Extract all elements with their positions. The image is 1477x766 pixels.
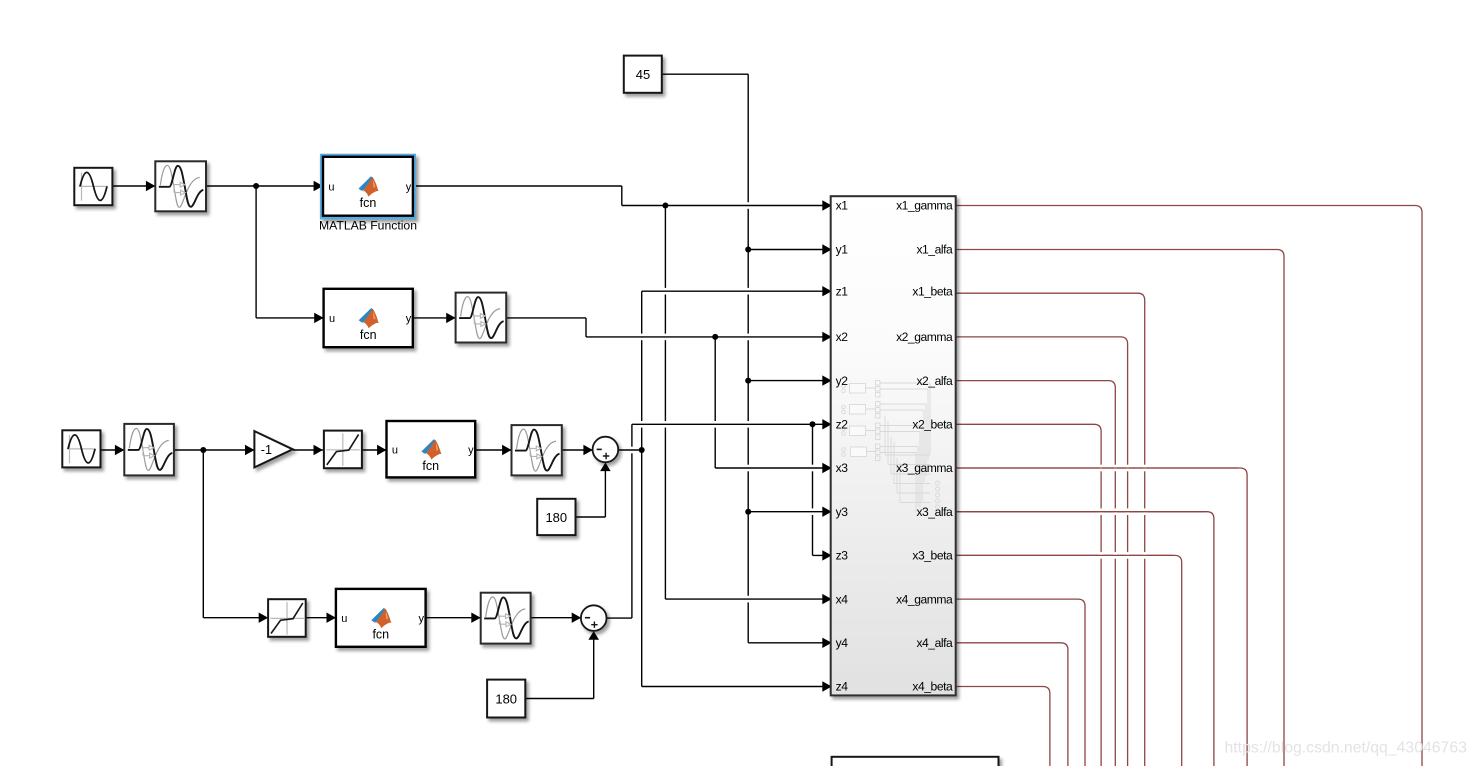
wire sum1 out [618, 449, 641, 451]
WIRES-HORIZONTAL [101, 74, 832, 698]
sum block S2 [581, 605, 607, 631]
wire gain to sat1 [293, 449, 323, 451]
wire x4_gamma output [956, 599, 1085, 766]
wire z3 row [813, 554, 832, 556]
transport delay block (after fcn2) [456, 293, 507, 343]
svg-text:x3_alfa: x3_alfa [916, 505, 953, 519]
wire y2 row [748, 380, 831, 382]
svg-text:z4: z4 [836, 680, 849, 694]
wire z2 row [632, 423, 831, 425]
svg-text:x4: x4 [836, 592, 849, 606]
wire TD3 to gain [174, 449, 255, 451]
svg-text:u: u [341, 613, 347, 625]
wire x4_beta output [956, 687, 1050, 766]
svg-text:x4_alfa: x4_alfa [916, 636, 953, 650]
wire 45 out [662, 73, 748, 75]
svg-text:x3_gamma: x3_gamma [896, 461, 953, 475]
wire x3_gamma horizontal [956, 467, 1238, 469]
subsystem port labels [836, 199, 953, 694]
wire step-down from fcn1 output to x1 row [621, 186, 623, 206]
svg-text:x1_beta: x1_beta [912, 284, 953, 298]
svg-text:x3_beta: x3_beta [912, 549, 953, 563]
svg-text:x3: x3 [836, 461, 849, 475]
wire x3 row [715, 467, 831, 469]
wire to fcn2 [256, 317, 324, 319]
wire x4_alfa output [956, 643, 1068, 766]
wire TD2 out [506, 317, 586, 319]
wire x2 row [586, 336, 831, 338]
transport delay block (after fcn4) [481, 593, 531, 644]
wire fcn3 to TD4 [475, 449, 511, 451]
wire to sat2 [203, 617, 268, 619]
wire TD1 to fcn1 [206, 185, 323, 187]
transport delay block (top chain) [155, 161, 206, 211]
svg-text:fcn: fcn [360, 328, 377, 342]
constant block 45 [624, 56, 662, 93]
wire z4 row [642, 686, 831, 688]
svg-text:x4_beta: x4_beta [912, 680, 953, 694]
wire sum2 out [607, 617, 632, 619]
wire 180b up into sum2 [593, 634, 595, 699]
wire sum1 junction vertical z1..z4 [641, 291, 643, 686]
svg-text:y4: y4 [836, 636, 849, 650]
svg-text:fcn: fcn [360, 196, 377, 210]
wire step-down TD after fcn2 to x2 row [585, 318, 587, 337]
RED OUTPUT WIRES [956, 206, 1422, 766]
wire 180b out [525, 698, 593, 700]
RED HORIZONTALS REDRAWN OVER GAPS [956, 468, 1238, 555]
svg-text:y2: y2 [836, 374, 849, 388]
wire x4 row [665, 598, 831, 600]
svg-text:y: y [406, 181, 412, 193]
wire x3_gamma output [956, 468, 1247, 766]
wire fcn4 to TD5 [426, 617, 481, 619]
wire x1 junction down to x4 row [664, 206, 666, 600]
svg-text:x4_gamma: x4_gamma [896, 592, 953, 606]
svg-text:y: y [406, 313, 412, 325]
wire z2 junction down to z3 row [812, 424, 814, 555]
svg-text:x1_alfa: x1_alfa [916, 243, 953, 257]
svg-text:-1: -1 [261, 443, 272, 457]
svg-text:x2_alfa: x2_alfa [916, 374, 953, 388]
svg-text:z1: z1 [836, 284, 849, 298]
wire sine2 to TD3 [101, 449, 125, 451]
wire branch chain3 down to chain4 [202, 450, 204, 618]
svg-text:180: 180 [495, 691, 517, 706]
svg-text:y: y [419, 613, 425, 625]
sine wave source block (top chain) [74, 168, 112, 205]
wire y4 row [748, 642, 831, 644]
saturation block (chain 4) [268, 599, 306, 637]
wire sat1 to fcn3 [361, 449, 386, 451]
transport delay block (after fcn3) [512, 425, 562, 475]
wire TD4 to sum1 [562, 449, 593, 451]
wire x3_alfa horizontal [956, 511, 1205, 513]
wire sine1 to TD1 [112, 185, 155, 187]
svg-text:MATLAB Function: MATLAB Function [319, 219, 417, 233]
svg-text:x2_gamma: x2_gamma [896, 330, 953, 344]
svg-text:u: u [328, 181, 334, 193]
wire x1_alfa output [956, 250, 1284, 766]
wire x1 row [622, 205, 831, 207]
svg-text:45: 45 [636, 67, 650, 82]
MATLAB Function block fcn1 (selected, blue frame) [320, 154, 416, 220]
MATLAB Function block fcn4 [336, 589, 426, 647]
wire x2 junction down to x3 row [714, 337, 716, 468]
sine wave source block (chain 3) [62, 430, 100, 467]
wire x2_gamma output [956, 337, 1128, 766]
wire x1_beta output [956, 293, 1145, 766]
wire fcn2 to TD2 [413, 317, 456, 319]
svg-text:x1: x1 [836, 199, 849, 213]
wire 180a up into sum1 [604, 465, 606, 517]
svg-text:u: u [329, 313, 335, 325]
transport delay block (chain 3) [124, 424, 174, 476]
wire x3_beta horizontal [956, 554, 1173, 556]
svg-text:x2_beta: x2_beta [912, 418, 953, 432]
constant block 180 (upper) [537, 499, 575, 535]
svg-text:x2: x2 [836, 330, 849, 344]
WIRES-VERTICAL [203, 74, 812, 698]
svg-text:https://blog.csdn.net/qq_43046: https://blog.csdn.net/qq_43046763 [1225, 740, 1468, 757]
partial block at bottom [832, 757, 999, 766]
JUNCTION DOTS [200, 183, 815, 515]
wire y3 row [748, 511, 831, 513]
svg-text:y: y [468, 444, 474, 456]
sum block S1 [593, 437, 619, 463]
svg-text:fcn: fcn [422, 459, 439, 473]
wire sum2 up to z2 row [631, 424, 633, 618]
subsystem block (12-in 12-out) [831, 196, 956, 695]
svg-text:z2: z2 [836, 418, 849, 432]
svg-text:u: u [392, 444, 398, 456]
wire x2_beta output [956, 424, 1101, 766]
wire 180a out [576, 516, 606, 518]
svg-text:z3: z3 [836, 549, 849, 563]
wire sat2 to fcn4 [307, 617, 336, 619]
CROSSING GAPS (white breaks in vertical wires) [630, 202, 1146, 602]
svg-text:y1: y1 [836, 243, 849, 257]
svg-text:y3: y3 [836, 505, 849, 519]
svg-text:x1_gamma: x1_gamma [896, 199, 953, 213]
wire fcn1 out [416, 185, 622, 187]
svg-text:fcn: fcn [372, 628, 389, 642]
wire x3_alfa output [956, 512, 1214, 766]
wire TD5 to sum2 [531, 617, 581, 619]
wire z1 row [642, 290, 831, 292]
gain block -1 [254, 431, 292, 467]
wire branch top chain down to fcn2 [255, 186, 257, 318]
svg-text:180: 180 [545, 510, 567, 525]
wire x1_gamma output [956, 206, 1422, 766]
subsystem content preview (faint) [842, 381, 940, 513]
wire x2_alfa output [956, 381, 1116, 766]
ARROWHEADS [115, 181, 832, 692]
constant block 180 (lower) [487, 680, 525, 718]
wire x3_beta output [956, 555, 1182, 766]
wire y1 row [748, 249, 831, 251]
MATLAB Function block fcn3 [387, 421, 476, 477]
MATLAB Function block fcn2 [324, 289, 413, 347]
saturation block (chain 3) [324, 431, 362, 469]
wire 45 constant vertical to y ports [747, 74, 749, 643]
